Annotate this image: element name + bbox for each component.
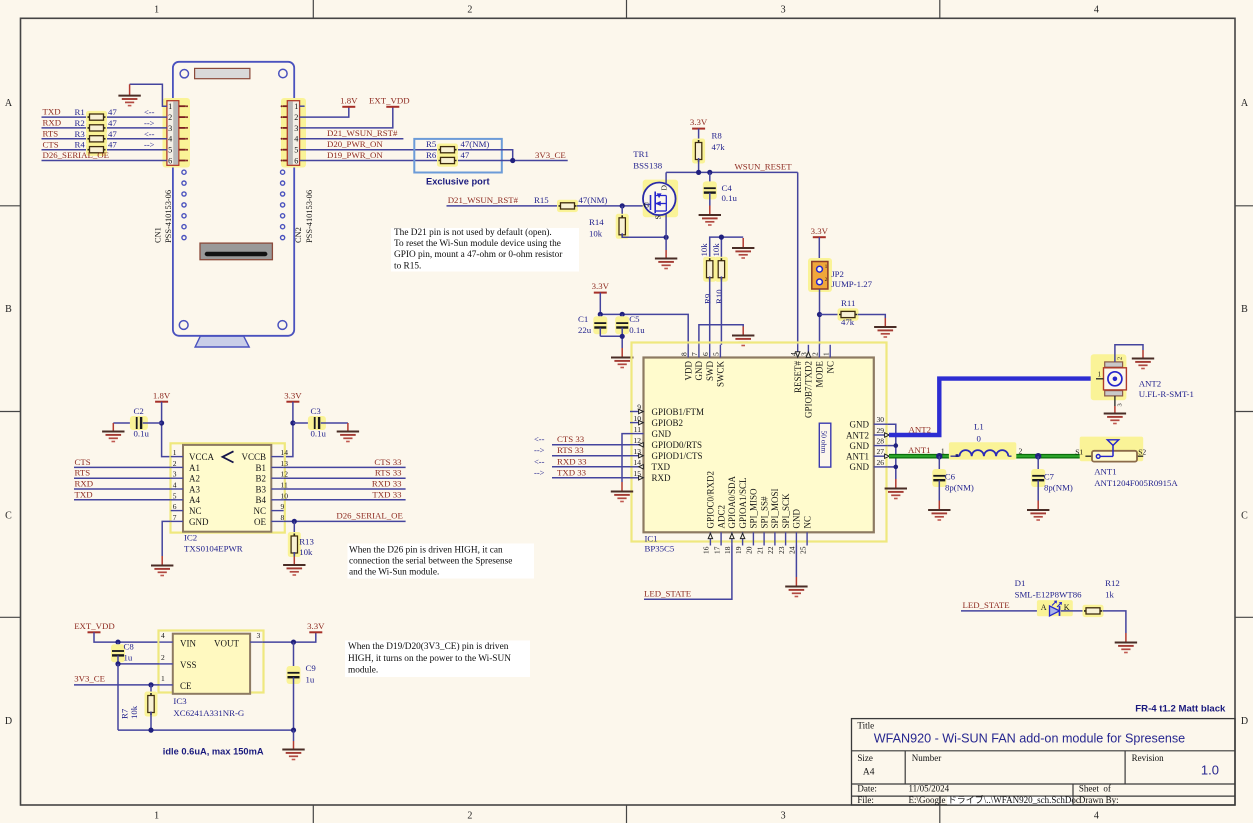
- svg-text:WFAN920 - Wi-SUN FAN add-on mo: WFAN920 - Wi-SUN FAN add-on module for S…: [874, 732, 1185, 746]
- resistor R14: [621, 206, 623, 219]
- svg-text:11/05/2024: 11/05/2024: [909, 783, 950, 793]
- wire IC1 pin24 GND: [795, 546, 797, 578]
- svg-text:28: 28: [877, 437, 885, 446]
- svg-text:11: 11: [634, 425, 641, 434]
- wire RXD 33 from IC2: [284, 488, 406, 490]
- svg-text:47k: 47k: [712, 142, 726, 152]
- connector ANT2 U.FL: [1091, 354, 1127, 400]
- svg-text:ADC2: ADC2: [716, 505, 726, 529]
- svg-text:1: 1: [168, 102, 172, 111]
- svg-text:XC6241A331NR-G: XC6241A331NR-G: [173, 708, 245, 718]
- svg-text:23: 23: [777, 546, 786, 554]
- svg-text:3: 3: [1117, 403, 1124, 406]
- module mounting hole bottom-left: [179, 321, 188, 330]
- svg-text:4: 4: [173, 481, 177, 490]
- svg-text:2: 2: [161, 653, 165, 662]
- capacitor C9 body: [287, 666, 301, 684]
- capacitor C2 body: [130, 416, 148, 430]
- resistor R11 body: [838, 308, 859, 320]
- svg-text:6: 6: [173, 502, 177, 511]
- ground at IC1 pin24: [785, 577, 807, 597]
- svg-text:D1: D1: [1015, 578, 1026, 588]
- svg-text:connection the serial between: connection the serial between the Sprese…: [349, 557, 512, 567]
- svg-text:7: 7: [690, 352, 699, 356]
- svg-text:RTS 33: RTS 33: [557, 445, 584, 455]
- svg-text:2: 2: [467, 811, 472, 822]
- svg-text:3: 3: [173, 470, 177, 479]
- wire R6 output to 3V3_CE: [458, 160, 568, 162]
- junction C9 top: [291, 640, 296, 645]
- svg-text:16: 16: [702, 546, 711, 554]
- svg-text:47: 47: [108, 129, 117, 139]
- svg-text:C9: C9: [306, 663, 317, 673]
- svg-text:D21_WSUN_RST#: D21_WSUN_RST#: [327, 128, 398, 138]
- svg-text:BP35C5: BP35C5: [645, 543, 675, 553]
- wire R15 to TR1 gate: [577, 205, 649, 207]
- wire TR1 drain up: [665, 172, 667, 183]
- svg-text:WSUN_RESET: WSUN_RESET: [735, 161, 793, 171]
- svg-text:E:\Google ドライブ\..\WFAN920_sch.: E:\Google ドライブ\..\WFAN920_sch.SchDoc: [909, 794, 1080, 805]
- wire D21_WSUN_RST# from CN2 pin4: [300, 138, 404, 140]
- svg-text:R4: R4: [75, 140, 86, 150]
- svg-text:14: 14: [281, 448, 289, 457]
- svg-text:-->: -->: [534, 467, 545, 477]
- IC3 highlight box: [159, 631, 264, 693]
- svg-text:25: 25: [798, 546, 807, 554]
- wire WSUN_RESET down to IC1 pin4: [797, 172, 799, 344]
- svg-text:GPIOC0/RXD2: GPIOC0/RXD2: [706, 471, 716, 529]
- power: [284, 390, 302, 401]
- junction GND bus pin26: [894, 465, 899, 470]
- wire CTS 33 from IC2: [284, 466, 406, 468]
- svg-text:A4: A4: [863, 768, 875, 778]
- wire ANT2 pin2 to ground: [1115, 345, 1143, 362]
- thick green wire ANT1 right segment: [1012, 454, 1086, 459]
- svg-text:RXD 33: RXD 33: [372, 479, 402, 489]
- svg-text:SPI_MOSI: SPI_MOSI: [770, 488, 780, 528]
- svg-text:B3: B3: [255, 484, 266, 494]
- svg-text:S1: S1: [1075, 447, 1083, 456]
- svg-text:0.1u: 0.1u: [722, 193, 738, 203]
- IC1 top pins: [679, 345, 835, 418]
- capacitor C9: [293, 642, 295, 672]
- svg-text:5: 5: [294, 146, 298, 155]
- svg-text:8p(NM): 8p(NM): [1044, 483, 1073, 493]
- ground at C7: [1027, 501, 1049, 521]
- svg-text:2: 2: [811, 352, 820, 356]
- svg-text:RXD 33: RXD 33: [557, 456, 587, 466]
- ground at R12: [1115, 633, 1137, 653]
- svg-text:File:: File:: [857, 795, 874, 805]
- wire R11 to ground: [858, 315, 886, 319]
- svg-text:1: 1: [821, 352, 830, 356]
- wire TXD row: [42, 116, 167, 118]
- wire IC1 pin18 to LED_STATE: [644, 546, 732, 600]
- ground at IC1 pin7: [732, 327, 754, 346]
- ground at IC1 GND bus: [885, 479, 907, 499]
- svg-text:GND: GND: [694, 361, 704, 381]
- svg-text:RTS: RTS: [75, 468, 91, 478]
- ground at C3: [337, 423, 359, 442]
- wire WSUN_RESET horizontal: [666, 171, 798, 173]
- svg-text:R14: R14: [589, 217, 604, 227]
- svg-text:CN2: CN2: [294, 227, 303, 243]
- junction C1 top: [598, 312, 603, 317]
- svg-text:1: 1: [1098, 371, 1102, 379]
- svg-text:IC1: IC1: [645, 534, 658, 544]
- resistor R14 body: [616, 214, 629, 239]
- svg-text:10k: 10k: [589, 228, 603, 238]
- IC2 body TXS0104EPWR: [183, 445, 271, 532]
- resistor R2: [86, 122, 107, 134]
- svg-text:C7: C7: [1044, 471, 1055, 481]
- junction GND bus pin28: [894, 443, 899, 448]
- svg-text:TXD: TXD: [652, 462, 671, 472]
- svg-text:B4: B4: [255, 495, 266, 505]
- svg-text:EXT_VDD: EXT_VDD: [74, 621, 115, 631]
- svg-text:VCCA: VCCA: [189, 452, 215, 462]
- svg-text:2: 2: [1117, 357, 1124, 360]
- svg-text:D: D: [5, 716, 12, 727]
- svg-text:1: 1: [294, 102, 298, 111]
- wire R14 bottom to source node: [622, 233, 666, 237]
- wire 3V3_CE to CE pin: [74, 684, 159, 686]
- power: [811, 226, 829, 237]
- resistor R11: [820, 314, 840, 316]
- wire RXD row: [42, 127, 167, 129]
- svg-text:GPIOB1/FTM: GPIOB1/FTM: [652, 407, 705, 417]
- svg-text:47: 47: [108, 140, 117, 150]
- svg-text:L1: L1: [974, 421, 984, 431]
- svg-text:Size: Size: [857, 753, 873, 763]
- ground at IC1 pin11: [611, 482, 633, 502]
- resistor R1: [86, 111, 107, 123]
- 50 ohm box: [819, 423, 831, 467]
- thick green wire ANT1 left segment: [889, 454, 951, 459]
- svg-text:-->: -->: [534, 445, 545, 455]
- svg-text:G: G: [644, 201, 650, 210]
- resistor R3: [86, 133, 107, 145]
- svg-text:22: 22: [766, 546, 775, 554]
- svg-text:B1: B1: [255, 463, 266, 473]
- svg-text:19: 19: [734, 546, 743, 554]
- svg-text:C: C: [1241, 511, 1248, 522]
- module pad holes left column: [182, 170, 186, 240]
- wire D20_PWR_ON from CN2 pin5: [300, 149, 437, 151]
- svg-text:D: D: [659, 185, 668, 191]
- svg-text:RESET#: RESET#: [793, 361, 803, 394]
- svg-text:<--: <--: [534, 456, 545, 466]
- svg-text:TXD 33: TXD 33: [557, 467, 587, 477]
- IC1 right pins: [846, 415, 889, 472]
- capacitor C5: [621, 314, 623, 322]
- svg-text:2: 2: [173, 459, 177, 468]
- svg-text:29: 29: [877, 426, 885, 435]
- junction R7 bottom: [148, 728, 153, 733]
- svg-text:PSS-410153-06: PSS-410153-06: [164, 190, 173, 243]
- svg-text:S2: S2: [1138, 447, 1146, 456]
- junction C5 bottom: [620, 334, 625, 339]
- svg-text:47: 47: [108, 107, 117, 117]
- IC1 left pins: [630, 403, 704, 483]
- svg-text:A: A: [1241, 98, 1249, 109]
- svg-text:JUMP-1.27: JUMP-1.27: [831, 279, 872, 289]
- svg-text:VDD: VDD: [683, 361, 693, 381]
- junction C9 bottom / ground: [291, 728, 296, 733]
- capacitor C7 body: [1031, 469, 1045, 487]
- svg-text:SPI_SS#: SPI_SS#: [759, 496, 769, 529]
- svg-text:4: 4: [1094, 5, 1099, 16]
- svg-text:3.3V: 3.3V: [811, 226, 829, 236]
- capacitor C1: [599, 314, 601, 322]
- svg-text:B: B: [5, 304, 12, 315]
- svg-text:TR1: TR1: [633, 149, 649, 159]
- svg-text:module.: module.: [348, 665, 378, 675]
- junction R8/WSUN_RESET: [696, 170, 701, 175]
- junction C4/WSUN_RESET: [707, 170, 712, 175]
- svg-text:1.8V: 1.8V: [153, 390, 171, 400]
- svg-text:RXD: RXD: [43, 118, 62, 128]
- svg-text:R3: R3: [75, 129, 86, 139]
- svg-text:1.0: 1.0: [1201, 763, 1219, 778]
- svg-text:4: 4: [294, 135, 298, 144]
- capacitor C3: [293, 422, 313, 424]
- svg-text:C: C: [5, 511, 12, 522]
- junction R13/OE: [292, 519, 297, 524]
- svg-text:2: 2: [294, 113, 298, 122]
- svg-text:TXD: TXD: [75, 489, 93, 499]
- wire C8 column to bottom rail: [117, 664, 119, 730]
- resistor R10 body: [715, 257, 728, 282]
- svg-text:GPIOA1/SCL: GPIOA1/SCL: [738, 477, 748, 528]
- wire stub CN2 pin1: [300, 105, 305, 107]
- junction R15/R14/gate: [620, 203, 625, 208]
- svg-text:0.1u: 0.1u: [629, 325, 645, 335]
- svg-text:SML-E12P8WT86: SML-E12P8WT86: [1015, 589, 1083, 599]
- capacitor C6: [938, 456, 940, 474]
- resistor R9 body: [703, 257, 716, 282]
- resistor R13 body: [288, 532, 301, 557]
- wire CN2 pin3 to EXT_VDD: [300, 107, 393, 128]
- svg-text:GPIOA0/SDA: GPIOA0/SDA: [727, 475, 737, 528]
- svg-text:R15: R15: [534, 195, 549, 205]
- svg-text:LED_STATE: LED_STATE: [644, 589, 691, 599]
- inductor L1: [949, 442, 1016, 459]
- junction C3 / 3.3V: [290, 420, 295, 425]
- resistor R5: [437, 144, 458, 156]
- exclusive port blue box: [414, 139, 502, 173]
- transistor TR1 BSS138: [643, 180, 678, 218]
- svg-text:When the D26 pin is driven HIG: When the D26 pin is driven HIGH, it can: [349, 545, 503, 555]
- wire TXD to IC2: [74, 499, 171, 501]
- svg-text:R8: R8: [712, 130, 723, 140]
- svg-text:4: 4: [1094, 811, 1099, 822]
- IC2 direction chevron: [223, 451, 234, 462]
- svg-text:Title: Title: [857, 720, 874, 730]
- junction R5/R6 outputs: [510, 158, 515, 163]
- svg-text:22u: 22u: [578, 325, 592, 335]
- svg-text:1.8V: 1.8V: [340, 95, 358, 105]
- svg-text:20: 20: [745, 546, 754, 554]
- module bottom board connector: [200, 243, 272, 260]
- svg-text:IC3: IC3: [173, 696, 187, 706]
- svg-text:B: B: [1241, 304, 1248, 315]
- svg-text:6: 6: [294, 156, 298, 165]
- svg-text:A2: A2: [189, 474, 200, 484]
- ground at IC3 rail: [282, 741, 304, 760]
- svg-text:7: 7: [173, 513, 177, 522]
- svg-text:3: 3: [781, 5, 786, 16]
- wire R12 to ground: [1103, 611, 1126, 633]
- resistor R12 body: [1083, 605, 1104, 617]
- svg-text:ANT2: ANT2: [846, 430, 869, 440]
- svg-text:ANT1: ANT1: [846, 452, 869, 462]
- svg-text:GND: GND: [850, 441, 870, 451]
- wire TXD 33 to pin15: [552, 477, 630, 479]
- svg-text:SPI_MISO: SPI_MISO: [749, 488, 759, 529]
- svg-text:3V3_CE: 3V3_CE: [535, 150, 566, 160]
- svg-text:-->: -->: [144, 118, 155, 128]
- svg-text:30: 30: [877, 415, 885, 424]
- svg-text:47(NM): 47(NM): [461, 139, 490, 149]
- power 3.3V at IC3 output: [307, 621, 325, 632]
- svg-text:10: 10: [281, 491, 289, 500]
- wire R5 output to R6 net: [458, 150, 513, 161]
- svg-text:OE: OE: [254, 517, 266, 527]
- wire CTS to IC2: [74, 466, 171, 468]
- ground at R13: [283, 557, 305, 576]
- svg-text:GPIO pin, mount a 47-ohm or 0-: GPIO pin, mount a 47-ohm or 0-ohm resist…: [394, 250, 563, 260]
- svg-text:EXT_VDD: EXT_VDD: [369, 95, 410, 105]
- IC1 bottom pins: [702, 471, 813, 554]
- svg-text:4: 4: [168, 135, 172, 144]
- svg-text:21: 21: [755, 546, 764, 554]
- svg-text:ANT1: ANT1: [1094, 467, 1116, 477]
- ground at ANT2 pin2: [1132, 350, 1154, 369]
- wire R9 to IC1 pin6: [709, 276, 711, 344]
- wire D26_SERIAL_OE from IC2 OE: [284, 520, 406, 522]
- svg-text:RXD: RXD: [75, 479, 94, 489]
- power EXT_VDD at CN2: [369, 95, 410, 106]
- svg-text:U.FL-R-SMT-1: U.FL-R-SMT-1: [1139, 389, 1194, 399]
- resistor R4: [86, 144, 107, 156]
- capacitor C1 body: [593, 316, 607, 334]
- svg-text:CTS 33: CTS 33: [557, 434, 585, 444]
- svg-text:ANT1204F005R0915A: ANT1204F005R0915A: [1094, 478, 1178, 488]
- svg-text:2: 2: [1019, 447, 1023, 456]
- svg-text:R6: R6: [426, 150, 437, 160]
- wire TR1 source down to ground: [665, 215, 667, 251]
- svg-text:D: D: [1241, 716, 1248, 727]
- svg-text:4: 4: [161, 631, 165, 640]
- wire RTS 33 to pin13: [552, 455, 630, 457]
- svg-text:To reset the Wi-Sun module dev: To reset the Wi-Sun module device using …: [394, 239, 561, 249]
- svg-text:R11: R11: [841, 298, 855, 308]
- svg-text:26: 26: [877, 458, 885, 467]
- wire IC2 GND pin7: [162, 521, 171, 556]
- svg-text:1: 1: [154, 811, 159, 822]
- ground at TR1 source: [655, 250, 677, 269]
- ground at CN1 pin1: [118, 84, 140, 105]
- svg-text:CTS: CTS: [43, 139, 59, 149]
- title block texts: [857, 720, 1219, 805]
- svg-text:GND: GND: [189, 517, 209, 527]
- junction R7 top: [148, 682, 153, 687]
- svg-text:SWCK: SWCK: [716, 361, 726, 388]
- wire R9/R10 tops: [710, 237, 744, 262]
- junction at TR1 source: [664, 235, 669, 240]
- svg-text:CE: CE: [180, 681, 192, 691]
- svg-text:C3: C3: [311, 406, 322, 416]
- bottom rail wire: [118, 729, 294, 731]
- svg-text:S: S: [654, 215, 663, 219]
- wire RTS to IC2: [74, 477, 171, 479]
- svg-text:47: 47: [108, 118, 117, 128]
- svg-text:Revision: Revision: [1132, 753, 1165, 763]
- svg-text:18: 18: [723, 546, 732, 554]
- ground at C2: [102, 423, 124, 442]
- ground at R11: [874, 318, 896, 337]
- thick blue wire ANT2: [889, 379, 1096, 435]
- wire D1 cathode to R12: [1061, 610, 1084, 612]
- ground at C4: [699, 206, 721, 226]
- svg-text:NC: NC: [825, 361, 835, 374]
- junction C6 / green wire: [936, 453, 942, 459]
- svg-text:3V3_CE: 3V3_CE: [74, 674, 105, 684]
- module pad holes right column: [281, 170, 285, 240]
- module mounting hole bottom-right: [278, 321, 287, 330]
- svg-text:12: 12: [281, 470, 289, 479]
- power 1.8V at CN2: [340, 95, 358, 106]
- svg-text:<--: <--: [144, 129, 155, 139]
- wire VOUT to 3.3V: [263, 632, 316, 642]
- svg-text:C5: C5: [629, 314, 640, 324]
- svg-text:17: 17: [712, 546, 721, 554]
- svg-text:8p(NM): 8p(NM): [945, 483, 974, 493]
- svg-text:D26_SERIAL_OE: D26_SERIAL_OE: [336, 511, 402, 521]
- power: [74, 621, 115, 632]
- svg-text:B2: B2: [255, 474, 266, 484]
- svg-text:5: 5: [173, 491, 177, 500]
- svg-text:GND: GND: [850, 420, 870, 430]
- svg-text:SWD: SWD: [705, 361, 715, 382]
- svg-text:C8: C8: [124, 641, 135, 651]
- svg-text:47(NM): 47(NM): [579, 195, 608, 205]
- svg-text:Date:: Date:: [857, 783, 877, 793]
- svg-text:-->: -->: [144, 140, 155, 150]
- svg-text:GPIOD1/CTS: GPIOD1/CTS: [652, 451, 703, 461]
- svg-text:47k: 47k: [841, 317, 855, 327]
- svg-text:3: 3: [294, 124, 298, 133]
- svg-text:10k: 10k: [711, 243, 721, 257]
- svg-text:RTS 33: RTS 33: [375, 468, 402, 478]
- svg-text:1: 1: [154, 5, 159, 16]
- svg-text:D20_PWR_ON: D20_PWR_ON: [327, 139, 383, 149]
- svg-text:IC2: IC2: [184, 533, 197, 543]
- capacitor C8 body: [111, 644, 125, 662]
- wire D19_PWR_ON from CN2 pin6: [300, 160, 437, 162]
- svg-text:SPI_SCK: SPI_SCK: [781, 493, 791, 529]
- wire C1 bottom to C5 bottom: [600, 335, 622, 337]
- wire RTS row: [42, 138, 167, 140]
- svg-text:<--: <--: [534, 434, 545, 444]
- wire CN2 pin2 to 1.8V: [300, 107, 349, 117]
- svg-text:1: 1: [161, 674, 165, 683]
- note about D26 pin: [348, 544, 535, 579]
- svg-text:Number: Number: [912, 753, 942, 763]
- Spresense module outline: [173, 62, 294, 336]
- capacitor C5 body: [615, 316, 629, 334]
